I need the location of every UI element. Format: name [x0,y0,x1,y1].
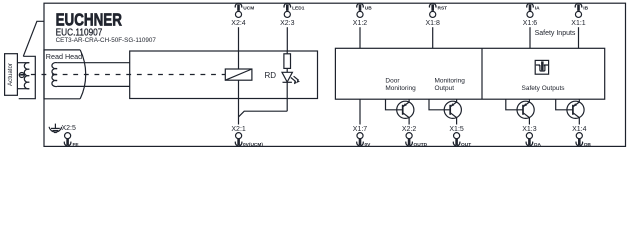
svg-text:OUT: OUT [461,142,471,148]
svg-text:LED1: LED1 [292,5,305,11]
svg-text:Read Head: Read Head [46,52,82,61]
svg-text:RST: RST [438,5,448,11]
svg-text:0V(UCM): 0V(UCM) [243,142,263,148]
svg-text:0V: 0V [365,142,372,148]
svg-text:X1:4: X1:4 [572,126,587,133]
svg-text:X2:4: X2:4 [231,20,246,27]
svg-text:X2:2: X2:2 [402,126,417,133]
svg-text:Output: Output [435,85,455,92]
svg-text:RD: RD [265,71,277,80]
svg-text:UCM: UCM [243,5,254,11]
svg-text:IB: IB [583,5,588,11]
svg-text:Safety Inputs: Safety Inputs [535,30,576,37]
svg-text:X2:1: X2:1 [231,126,246,133]
svg-text:X1:3: X1:3 [522,126,537,133]
svg-text:FE: FE [73,142,80,148]
svg-text:Monitoring: Monitoring [435,77,466,84]
svg-text:CET3-AR-CRA-CH-50F-SG-110907: CET3-AR-CRA-CH-50F-SG-110907 [56,37,157,44]
svg-text:X1:7: X1:7 [353,126,368,133]
svg-text:X1:8: X1:8 [425,20,440,27]
svg-text:Actuator: Actuator [7,62,14,86]
svg-text:Door: Door [385,77,400,84]
svg-text:IA: IA [535,5,540,11]
svg-text:OUTD: OUTD [414,142,428,148]
svg-text:OB: OB [584,142,592,148]
svg-text:X2:5: X2:5 [62,125,77,132]
svg-text:Monitoring: Monitoring [385,85,416,92]
svg-text:Safety Outputs: Safety Outputs [522,85,566,92]
svg-text:UB: UB [365,5,372,11]
svg-text:OA: OA [534,142,542,148]
svg-text:X1:1: X1:1 [571,20,586,27]
svg-text:X1:2: X1:2 [353,20,368,27]
svg-text:X2:3: X2:3 [280,20,295,27]
svg-text:X1:5: X1:5 [449,126,464,133]
svg-text:X1:6: X1:6 [523,20,538,27]
